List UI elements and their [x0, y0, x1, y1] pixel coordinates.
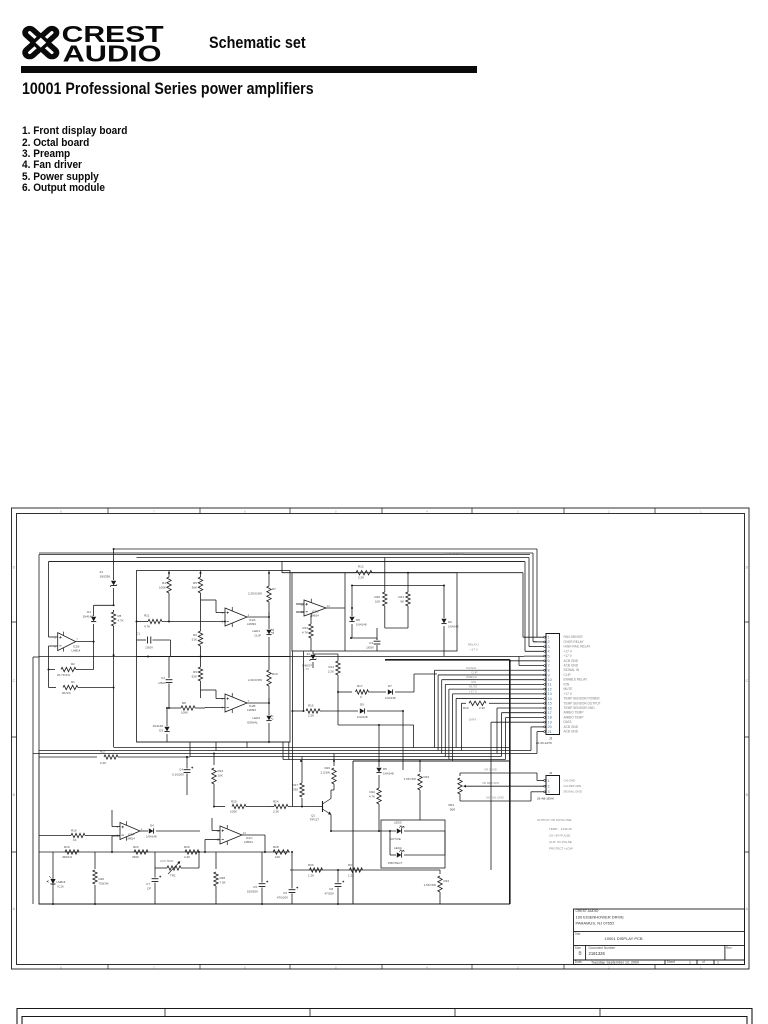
svg-text:1: 1 [717, 960, 719, 964]
wire J1 pin3 [529, 646, 544, 648]
svg-text:R26: R26 [324, 766, 330, 770]
svg-text:R17: R17 [100, 750, 106, 754]
svg-text:14: 14 [243, 831, 247, 835]
svg-text:20.7K/1%: 20.7K/1% [57, 673, 70, 677]
svg-text:7: 7 [548, 664, 550, 668]
note output on data line [537, 818, 573, 851]
LED LED1 [252, 617, 273, 657]
title block size doc [575, 946, 732, 956]
svg-text:19: 19 [548, 720, 552, 724]
svg-text:VR1: VR1 [448, 803, 454, 807]
svg-text:2.2K: 2.2K [100, 761, 106, 765]
wire high rail relay [137, 558, 530, 647]
svg-text:51K: 51K [192, 638, 197, 642]
wire D7 up [414, 674, 437, 692]
svg-text:R24: R24 [273, 800, 279, 804]
wire J1 pin20 [531, 727, 544, 751]
Crest Audio logo [18, 20, 188, 68]
circuit block box upper-left outer [39, 555, 530, 754]
LED LED4 [388, 830, 445, 865]
svg-text:17: 17 [548, 711, 552, 715]
svg-text:1N4148: 1N4148 [152, 724, 163, 728]
svg-text:1N4148: 1N4148 [82, 615, 93, 619]
svg-text:100K: 100K [230, 810, 237, 814]
wire IC2B out [247, 698, 270, 704]
resistor R2 [48, 642, 94, 677]
svg-text:Date:: Date: [575, 960, 583, 964]
svg-text:12: 12 [548, 687, 552, 691]
svg-text:SIGNAL IN: SIGNAL IN [564, 668, 580, 672]
wire J1 pin5 [39, 642, 544, 656]
capacitor C1 [136, 632, 170, 657]
resistor R26 750 [93, 852, 109, 904]
svg-text:R10: R10 [272, 672, 278, 676]
svg-text:C6: C6 [283, 891, 287, 895]
transistor Q1 [310, 790, 331, 831]
wire J1 pin19 data [491, 722, 544, 870]
svg-text:1: 1 [548, 636, 550, 640]
sheet 1 zone letters [13, 566, 749, 912]
svg-text:2.2K/0.5W: 2.2K/0.5W [248, 592, 262, 596]
svg-text:VR SEND: VR SEND [484, 768, 497, 772]
resistor R10 [248, 657, 278, 704]
op-amp IC1D [301, 599, 331, 618]
svg-text:1N4148: 1N4148 [385, 696, 396, 700]
wire mid bus 3 [33, 753, 537, 755]
svg-text:7: 7 [76, 637, 78, 641]
svg-text:4: 4 [548, 650, 550, 654]
svg-text:J2: J2 [549, 771, 553, 775]
wire mid bus 4 [190, 756, 502, 758]
svg-text:8: 8 [60, 509, 62, 513]
wire IC1D out [326, 607, 345, 609]
svg-text:3: 3 [117, 825, 119, 829]
svg-text:D: D [746, 566, 749, 570]
svg-text:R6: R6 [193, 633, 197, 637]
svg-text:47/25V: 47/25V [324, 892, 334, 896]
svg-text:C2: C2 [161, 676, 165, 680]
resistor R26b 2.2 1W [320, 754, 336, 791]
svg-text:4.7K: 4.7K [144, 625, 150, 629]
op-amp IC1C [217, 825, 254, 845]
page title [22, 80, 314, 97]
svg-text:3: 3 [548, 645, 550, 649]
svg-text:Rev: Rev [726, 946, 732, 950]
sheet 1 zone ticks top [108, 508, 655, 514]
svg-text:+17 V: +17 V [564, 649, 573, 653]
svg-text:MUTE: MUTE [469, 685, 477, 689]
svg-text:FAN DRIVER: FAN DRIVER [564, 635, 584, 639]
svg-text:LM814: LM814 [126, 837, 135, 841]
svg-text:1/50V: 1/50V [158, 681, 166, 685]
svg-text:ACTIVE: ACTIVE [390, 837, 401, 841]
svg-text:R5: R5 [118, 614, 122, 618]
wire IC1A in+ [112, 810, 120, 827]
svg-text:1: 1 [689, 960, 691, 964]
svg-text:R2: R2 [71, 662, 75, 666]
wire comparator bottom [137, 741, 291, 743]
wire +17V rail top [49, 562, 525, 652]
svg-text:12: 12 [301, 602, 305, 606]
svg-text:10K: 10K [218, 774, 223, 778]
diode D9 [357, 703, 403, 720]
LED LED2 [247, 703, 273, 742]
svg-text:CLIP: CLIP [564, 673, 571, 677]
contents list [22, 126, 127, 194]
svg-text:5: 5 [335, 509, 337, 513]
resistor R23 10K [212, 754, 224, 808]
circuit block box upper-left inner [49, 561, 525, 563]
svg-text:C8: C8 [329, 887, 333, 891]
svg-text:LED4: LED4 [394, 846, 402, 850]
wire C3 top [352, 638, 377, 640]
resistor R17 [39, 750, 190, 766]
resistor R17 0 [356, 684, 369, 699]
logo knot mark [23, 27, 58, 59]
title block frame [574, 909, 745, 965]
capacitor C5 [247, 852, 268, 904]
svg-text:TEMP SENSOR POWER: TEMP SENSOR POWER [564, 697, 601, 701]
svg-text:10001 DISPLAY PCB: 10001 DISPLAY PCB [605, 936, 643, 941]
svg-text:MUTE: MUTE [564, 687, 573, 691]
circuit block box fan-driver divider [344, 573, 346, 651]
svg-text:R9: R9 [193, 670, 197, 674]
svg-text:2.2K: 2.2K [328, 670, 334, 674]
svg-text:B: B [746, 793, 749, 797]
wire over relay [39, 553, 537, 642]
svg-text:LED3: LED3 [394, 821, 402, 825]
wire IC2A in- [224, 621, 226, 623]
svg-text:6: 6 [548, 659, 550, 663]
svg-text:D4: D4 [150, 824, 154, 828]
svg-text:Size: Size [575, 946, 581, 950]
svg-text:R22: R22 [369, 790, 375, 794]
diode D7 [369, 684, 415, 700]
wire led box feeds [331, 831, 445, 855]
svg-text:1.2K: 1.2K [348, 874, 354, 878]
title block title [575, 932, 643, 941]
svg-text:1N4148: 1N4148 [383, 772, 394, 776]
svg-text:Z1: Z1 [99, 570, 103, 574]
svg-text:R28: R28 [220, 876, 226, 880]
svg-text:TIP127: TIP127 [310, 818, 320, 822]
resistor R21 [398, 572, 410, 628]
sheet 1 border inner [17, 514, 745, 965]
connector J2 pin numbers [548, 779, 550, 794]
resistor R6 [192, 630, 203, 657]
wire D1 to Z1 node [94, 604, 115, 606]
wire comparator drop 1 [216, 742, 247, 751]
wire left rail [33, 657, 39, 904]
svg-text:+17 V: +17 V [469, 689, 477, 693]
circuit block box led section [381, 820, 445, 868]
wire J1 pin21 [537, 732, 544, 754]
svg-text:R14: R14 [328, 665, 334, 669]
resistor R28 7.5K [214, 852, 226, 904]
svg-text:18: 18 [548, 716, 552, 720]
svg-text:7: 7 [248, 699, 250, 703]
potentiometer VR1 [448, 773, 467, 812]
svg-text:IC16: IC16 [58, 885, 64, 889]
wire D9 down [402, 710, 404, 770]
capacitor C7 [146, 852, 161, 904]
svg-text:4.7K: 4.7K [369, 795, 375, 799]
connector J1 refdes [536, 737, 553, 745]
svg-text:RELAY1: RELAY1 [468, 642, 479, 646]
wire fan block left drop [291, 651, 304, 807]
resistor R27 330 [292, 757, 304, 808]
wire J1 pin6 +17V bus [385, 648, 544, 904]
svg-text:Z2: Z2 [307, 652, 311, 656]
wire J1 pin4 [525, 650, 544, 652]
svg-text:1N4148: 1N4148 [448, 625, 459, 629]
wire comparator drop 2 [288, 742, 290, 760]
svg-text:1: 1 [548, 779, 550, 783]
svg-text:ACB GND: ACB GND [564, 664, 579, 668]
wire J1 pin7 [519, 657, 544, 666]
svg-text:62K: 62K [192, 675, 197, 679]
capacitor C8 [324, 869, 344, 904]
svg-text:D3: D3 [159, 729, 163, 733]
svg-text:AMBIO TEMP: AMBIO TEMP [564, 711, 584, 715]
svg-text:11: 11 [548, 683, 552, 687]
svg-text:1: 1 [248, 613, 250, 617]
svg-text:R5: R5 [193, 581, 197, 585]
svg-text:C5: C5 [253, 885, 257, 889]
title block company [576, 909, 625, 925]
svg-text:VR RETURN: VR RETURN [482, 781, 499, 785]
svg-text:2.2K: 2.2K [308, 714, 314, 718]
svg-text:1.2K: 1.2K [308, 874, 314, 878]
svg-text:AMBIO TEMP: AMBIO TEMP [564, 715, 584, 719]
svg-text:D: D [13, 566, 16, 570]
svg-text:100: 100 [375, 600, 380, 604]
svg-text:LED1: LED1 [252, 629, 260, 633]
svg-text:C: C [13, 679, 16, 683]
capacitor C6 [276, 851, 298, 904]
svg-text:LM816: LM816 [57, 880, 66, 884]
svg-text:R31: R31 [348, 863, 354, 867]
svg-text:12: 12 [217, 829, 221, 833]
svg-text:2.2K: 2.2K [273, 810, 279, 814]
resistor R1 [49, 680, 114, 695]
resistor R19 [62, 845, 79, 859]
sheet 1 zone numbers [60, 509, 702, 969]
svg-text:1N5338: 1N5338 [99, 575, 110, 579]
resistor R22 4.7K [369, 788, 381, 831]
svg-text:R16: R16 [71, 829, 77, 833]
svg-text:ACS TRIM: ACS TRIM [160, 859, 174, 863]
svg-text:2181326: 2181326 [589, 951, 606, 956]
svg-text:16: 16 [548, 706, 552, 710]
svg-text:5: 5 [54, 636, 56, 640]
wire VR send [460, 768, 544, 781]
title block date [575, 960, 719, 964]
svg-text:R11: R11 [144, 614, 150, 618]
resistor R5 36K [192, 571, 203, 631]
svg-text:1K: 1K [73, 838, 77, 842]
svg-text:TEMP SENSOR GND: TEMP SENSOR GND [564, 706, 596, 710]
wire J1 pin17 [502, 713, 544, 757]
wire mid bus 1 [114, 747, 510, 749]
resistor R4 [159, 571, 171, 623]
wire mid bus 2 [39, 750, 531, 752]
svg-text:9: 9 [548, 673, 550, 677]
svg-text:2.2K: 2.2K [479, 706, 485, 710]
svg-text:R1: R1 [71, 680, 75, 684]
svg-text:DATA: DATA [564, 720, 573, 724]
svg-text:D8: D8 [356, 618, 360, 622]
svg-text:1: 1 [700, 509, 702, 513]
circuit block box comparator section [137, 571, 291, 743]
svg-text:9K: 9K [400, 600, 404, 604]
svg-text:A: A [13, 907, 16, 911]
svg-text:LM393: LM393 [247, 622, 256, 626]
op-amp IC1B [54, 632, 80, 653]
svg-text:ACB GND: ACB GND [564, 730, 579, 734]
sheet 1 border outer [12, 508, 750, 969]
svg-text:R25: R25 [231, 800, 237, 804]
circuit block box comparator divider [137, 656, 291, 658]
svg-text:2.2/1W: 2.2/1W [320, 771, 330, 775]
svg-text:2.2K: 2.2K [358, 576, 364, 580]
resistor R24 330K [132, 845, 148, 859]
svg-text:5: 5 [222, 697, 224, 701]
svg-text:+17 V: +17 V [470, 648, 478, 652]
wire J1 pin16 [497, 708, 544, 754]
wire IC1B output [76, 641, 95, 643]
capacitor C4 [172, 756, 193, 795]
op-amp IC1A [117, 821, 143, 840]
wire IC1B input pin5 [49, 562, 58, 638]
svg-text:1.7V: 1.7V [303, 667, 309, 671]
resistor R7 [248, 571, 276, 618]
svg-text:1N4148: 1N4148 [146, 835, 157, 839]
svg-text:ION: ION [564, 682, 570, 686]
svg-text:R12: R12 [358, 565, 364, 569]
svg-text:100K: 100K [159, 586, 166, 590]
wire IC2B in- [205, 707, 225, 710]
svg-text:TR1: TR1 [170, 874, 176, 878]
svg-text:5: 5 [548, 654, 550, 658]
svg-text:36K: 36K [192, 586, 197, 590]
svg-text:CLIP: CLIP [254, 634, 261, 638]
wire fan driver top [114, 549, 537, 632]
wire net labels mid [466, 666, 477, 722]
svg-text:R15: R15 [308, 704, 314, 708]
resistor R15 [292, 704, 358, 718]
wire mid bus elbows [190, 742, 283, 760]
svg-text:2: 2 [608, 509, 610, 513]
svg-text:R29: R29 [184, 845, 190, 849]
wire IC2B in+ [201, 690, 226, 699]
svg-text:14: 14 [327, 604, 331, 608]
svg-text:15: 15 [548, 702, 552, 706]
wire IC1C in+ [212, 818, 220, 831]
zener Z2 [302, 651, 317, 671]
op-amp IC2A [222, 607, 257, 627]
svg-text:C1: C1 [136, 632, 140, 636]
svg-text:499/1%: 499/1% [62, 855, 73, 859]
wire R5 drop [113, 655, 115, 747]
svg-text:0: 0 [360, 695, 362, 699]
svg-text:Title: Title [575, 932, 581, 936]
svg-text:LM393: LM393 [247, 708, 256, 712]
svg-text:B: B [579, 950, 582, 955]
svg-text:A: A [746, 907, 749, 911]
wire J1 staircase pins 8-15 [435, 670, 544, 761]
svg-text:2: 2 [548, 784, 550, 788]
svg-text:D7: D7 [388, 684, 392, 688]
svg-text:7: 7 [153, 509, 155, 513]
wire IC2A in+ [201, 600, 226, 613]
svg-text:+17 V: +17 V [564, 654, 573, 658]
resistor R28 10K [273, 845, 289, 859]
svg-text:4.7K: 4.7K [118, 619, 124, 623]
wire IC1D inputs [296, 604, 304, 612]
svg-text:R21: R21 [398, 595, 404, 599]
resistor R9 [192, 657, 203, 699]
svg-text:ACB GND: ACB GND [564, 725, 579, 729]
resistor R14 [328, 661, 340, 725]
resistor R33 [404, 761, 430, 820]
circuit block box fan-driver section [292, 573, 457, 651]
svg-text:D6: D6 [448, 620, 452, 624]
connector J2 refdes [537, 771, 554, 801]
svg-text:750/1%: 750/1% [99, 882, 110, 886]
svg-text:R28: R28 [273, 845, 279, 849]
svg-text:ENABLE RELAY: ENABLE RELAY [564, 678, 589, 682]
svg-text:B: B [13, 793, 16, 797]
wire long lower rail [39, 851, 290, 853]
sheet 1 zone ticks right [745, 622, 750, 852]
wire IC1B input pin6 [49, 646, 58, 688]
resistor R13 [302, 616, 313, 651]
zener Z1 [99, 549, 117, 605]
wire signal gnd [460, 792, 544, 801]
circuit block box lower main [39, 753, 510, 904]
svg-text:CREST AUDIO: CREST AUDIO [576, 909, 599, 913]
svg-text:PROTECT +LOW: PROTECT +LOW [549, 847, 573, 851]
svg-text:OMEGA: OMEGA [466, 675, 477, 679]
capacitor C3 [366, 628, 380, 651]
header subtitle [209, 34, 306, 51]
svg-text:R16: R16 [463, 706, 469, 710]
svg-text:13: 13 [548, 692, 552, 696]
svg-text:21: 21 [548, 730, 552, 734]
wire J1 pin2 [533, 641, 544, 643]
svg-text:DATA: DATA [469, 718, 476, 722]
svg-text:SIGNAL: SIGNAL [247, 721, 258, 725]
svg-text:9K/1%: 9K/1% [62, 691, 71, 695]
svg-text:CLIP -5V PULSE: CLIP -5V PULSE [549, 840, 572, 844]
diode D8 [349, 607, 366, 638]
svg-text:Sheet: Sheet [667, 960, 675, 964]
wire Z2 to R14 [313, 654, 338, 661]
svg-text:Tuesday, September 12, 2000: Tuesday, September 12, 2000 [591, 960, 639, 964]
sheet 1 zone ticks bottom [108, 965, 655, 970]
svg-text:C4: C4 [179, 768, 183, 772]
svg-text:100/35V: 100/35V [247, 890, 258, 894]
svg-text:R20: R20 [374, 595, 380, 599]
svg-text:3: 3 [517, 509, 519, 513]
connector J1 net labels [564, 635, 601, 733]
svg-text:OUTPUT ON DATA LINE:: OUTPUT ON DATA LINE: [537, 818, 572, 822]
svg-text:10K: 10K [275, 855, 280, 859]
svg-text:2.2K: 2.2K [184, 855, 190, 859]
svg-text:7.5K: 7.5K [220, 881, 226, 885]
wire J1 pin1 [523, 632, 544, 637]
